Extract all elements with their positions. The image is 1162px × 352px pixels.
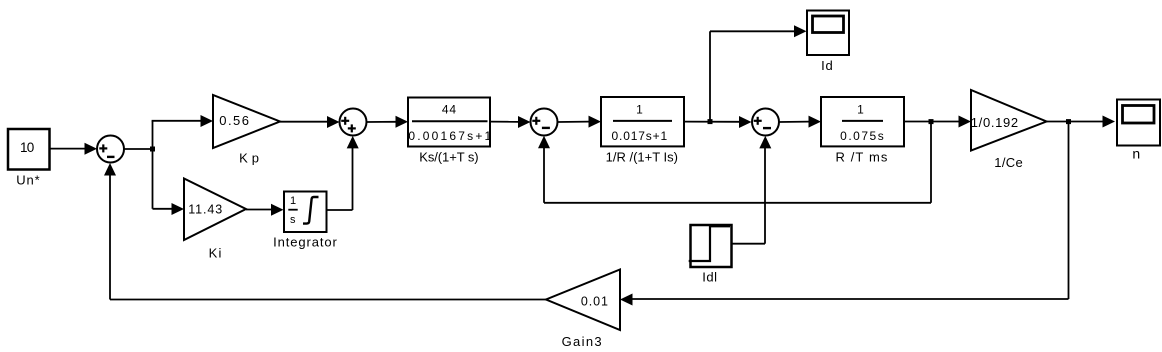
wire Sum3 to TF2 [558, 116, 602, 128]
svg-text:0.017s+1: 0.017s+1 [612, 129, 669, 143]
svg-text:0.56: 0.56 [219, 113, 250, 128]
svg-text:44: 44 [442, 103, 457, 117]
gain Kp triangle [213, 95, 280, 148]
svg-text:1/0.192: 1/0.192 [971, 115, 1019, 130]
svg-text:0.01: 0.01 [581, 295, 609, 309]
gain Gain3 triangle [546, 270, 620, 331]
wire Sum4 to TF3 [779, 116, 821, 128]
svg-text:n: n [1132, 146, 1140, 162]
wire TF3 to gain 1/Ce [904, 116, 971, 128]
svg-text:1: 1 [857, 102, 864, 116]
svg-text:Ks/(1+T s): Ks/(1+T s) [419, 149, 478, 164]
wire branch to Ki [153, 203, 185, 215]
wire 1/Ce to scope n [1047, 116, 1116, 128]
summing junction Sum4 [752, 109, 779, 136]
step source Idl [689, 225, 732, 267]
svg-text:K i: K i [209, 246, 222, 261]
svg-text:0.00167s+1: 0.00167s+1 [408, 129, 493, 143]
wire TF2 to Sum4 [684, 116, 752, 128]
wire Un* to Sum1 [50, 143, 98, 155]
svg-text:1: 1 [290, 195, 296, 207]
svg-text:1/R /(1+T Is): 1/R /(1+T Is) [606, 149, 678, 164]
wire branch to Kp [152, 115, 213, 127]
wire Idl to Sum4 [732, 136, 772, 244]
svg-text:Idl: Idl [702, 269, 717, 284]
svg-text:1/Ce: 1/Ce [994, 155, 1023, 170]
wire junction to scope Id [710, 25, 807, 121]
summing junction Sum3 [531, 109, 558, 136]
transfer function TF3 R/Tms [821, 97, 904, 146]
junction node after TF3 [929, 119, 934, 124]
source block Un* (constant 10) [8, 129, 50, 170]
wire Gain3 to Sum1 [104, 163, 546, 300]
svg-text:Id: Id [821, 58, 833, 73]
svg-text:0.075s: 0.075s [840, 129, 885, 143]
svg-text:R /T ms: R /T ms [836, 149, 889, 164]
wire speed feedback to Gain3 [620, 122, 1069, 306]
transfer function TF1 Ks/(1+Ts) [408, 98, 493, 147]
junction node after 1/Ce [1066, 119, 1071, 124]
wire branch vertical [152, 121, 154, 209]
gain Ki triangle [184, 179, 246, 241]
junction node after TF2 [708, 119, 713, 124]
wire Kp to Sum2 [280, 116, 340, 128]
gain 1/Ce triangle [971, 90, 1047, 151]
svg-text:1: 1 [636, 102, 643, 116]
svg-text:s: s [290, 214, 296, 226]
scope Id [807, 11, 849, 56]
wire Sum2 to TF1 [367, 116, 409, 128]
svg-text:Un*: Un* [16, 173, 40, 188]
junction branch node [150, 147, 155, 152]
svg-text:Integrator: Integrator [273, 235, 338, 250]
summing junction Sum1 [97, 136, 124, 163]
scope n [1117, 100, 1160, 146]
wire Integrator to Sum2 [327, 136, 359, 210]
svg-text:10: 10 [20, 140, 34, 155]
wire Sum1 to branch node [124, 148, 153, 150]
summing junction Sum2 [340, 109, 367, 136]
integrator block U-Integrator [284, 192, 327, 233]
wire TF1 to Sum3 [490, 116, 531, 128]
svg-text:Gain3: Gain3 [562, 334, 603, 349]
svg-text:K p: K p [239, 151, 259, 166]
wire EMF feedback to Sum3 [538, 122, 931, 203]
transfer function TF2 1/R/(1+TIs) [601, 97, 684, 146]
wire Ki to Integrator [246, 204, 284, 216]
svg-text:11.43: 11.43 [188, 203, 223, 217]
